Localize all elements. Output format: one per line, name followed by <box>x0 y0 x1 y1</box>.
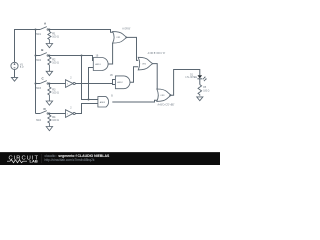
ground (R4) <box>46 127 52 131</box>
node B-R2 <box>48 55 50 57</box>
svg-text:A OR B' OR C' D': A OR B' OR C' D' <box>148 52 166 55</box>
switch SW2 <box>36 48 49 62</box>
resistor R3 <box>48 84 59 102</box>
OR gate OR1 <box>113 32 127 44</box>
node A-R1 <box>48 29 50 31</box>
voltage source V1 <box>11 62 24 69</box>
wire NOT2 output (D') up to AND3 <box>75 104 98 114</box>
ground (R2) <box>46 71 52 75</box>
svg-text:claudio : segmento f CLAUDIO N: claudio : segmento f CLAUDIO NIEBLAS <box>45 154 110 158</box>
wire C' vertical to AND1 <box>89 68 94 100</box>
node D-R4 <box>48 113 50 115</box>
svg-text:100 Ω: 100 Ω <box>52 91 59 94</box>
svg-text:AND2: AND2 <box>117 81 123 84</box>
switch SW1 <box>36 22 49 37</box>
node bus-B <box>35 55 37 57</box>
svg-text:100 Ω: 100 Ω <box>52 36 59 39</box>
svg-text:http://circuitlab.com/c7hm4v85: http://circuitlab.com/c7hm4v85bq2k <box>45 158 95 162</box>
AND gate AND3 <box>98 95 113 107</box>
OR gate OR2 <box>138 57 153 70</box>
wire NOT1 output (C') <box>75 80 115 84</box>
svg-text:1B: 1B <box>110 75 113 77</box>
wire LED to R5 <box>199 79 201 85</box>
wire AND2 out to OR2 <box>130 67 138 83</box>
svg-text:SW2: SW2 <box>36 60 42 62</box>
wire branch B <box>49 56 94 61</box>
logo divider <box>40 154 43 163</box>
svg-text:LTL-307EE: LTL-307EE <box>186 77 198 79</box>
wire branch C <box>49 83 66 85</box>
wire AND3 out to OR3 <box>112 100 157 102</box>
wire branch A <box>49 30 113 33</box>
wire top feed A <box>14 29 40 31</box>
svg-text:SW3: SW3 <box>36 88 42 90</box>
svg-text:100 Ω: 100 Ω <box>52 119 59 122</box>
svg-text:1B: 1B <box>96 55 99 57</box>
footer bar <box>0 152 220 165</box>
wire OR2 out to OR3 <box>153 64 157 90</box>
wire V1 top riser <box>14 30 16 63</box>
ground (R5) <box>197 97 203 101</box>
resistor R2 <box>48 56 59 72</box>
svg-text:100 Ω: 100 Ω <box>52 62 59 65</box>
wire B drop to AND3 <box>82 56 98 100</box>
wire branch D <box>49 113 66 115</box>
resistor R1 <box>48 30 59 44</box>
node B tap <box>81 55 83 57</box>
node AND3 in1 <box>88 99 90 101</box>
wire OR3 out to LED <box>169 70 200 96</box>
svg-text:A OR B': A OR B' <box>122 28 131 31</box>
svg-text:SW1: SW1 <box>36 34 42 36</box>
AND gate AND1 <box>93 55 108 70</box>
inverter NOT1 <box>66 78 76 88</box>
switch SW4 <box>36 107 49 122</box>
AND gate AND2 <box>110 75 130 89</box>
node bus-A <box>35 29 37 31</box>
svg-text:5 V: 5 V <box>20 66 24 69</box>
inverter NOT2 <box>66 108 76 118</box>
svg-text:SW4: SW4 <box>36 120 42 122</box>
wire V1 bottom <box>14 70 16 78</box>
svg-text:AND1: AND1 <box>95 63 101 66</box>
LED D1 <box>186 74 207 81</box>
svg-text:AND3: AND3 <box>100 101 106 104</box>
wire supply bus <box>35 30 37 114</box>
logo zigzag <box>7 160 27 163</box>
switch SW3 <box>36 76 49 90</box>
wire OR1 out to OR2 <box>125 37 138 60</box>
ground (V1) <box>11 77 17 81</box>
svg-text:A+B'C+C'D'+BD': A+B'C+C'D'+BD' <box>158 104 176 107</box>
OR gate OR3 <box>157 89 172 101</box>
ground (R3) <box>46 101 52 105</box>
wire AND1 out to OR1 <box>108 43 113 64</box>
wire AND2 in2 stub <box>113 84 116 85</box>
node bus-C <box>35 83 37 85</box>
resistor R5 <box>198 85 210 96</box>
node C-R3 <box>48 83 50 85</box>
resistor R4 <box>48 114 59 127</box>
ground (R1) <box>46 44 52 48</box>
svg-text:LAB: LAB <box>30 159 38 164</box>
svg-text:100 Ω: 100 Ω <box>203 90 209 92</box>
